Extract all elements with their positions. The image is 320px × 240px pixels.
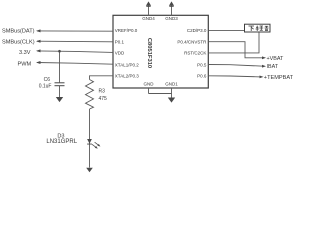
power arrow top GND4 bbox=[146, 1, 151, 5]
svg-text:XTAL2/P0.3: XTAL2/P0.3 bbox=[115, 74, 139, 79]
wire bbox=[171, 5, 173, 16]
wire bbox=[37, 63, 113, 65]
svg-text:RST/C2CK: RST/C2CK bbox=[184, 51, 206, 56]
arrowhead +VBAT bbox=[262, 56, 266, 59]
svg-text:XTAL1/P0.2: XTAL1/P0.2 bbox=[115, 62, 139, 67]
wire bbox=[37, 30, 113, 32]
microcontroller U1 C8051F310 bbox=[113, 15, 208, 88]
svg-text:GND3: GND3 bbox=[165, 16, 178, 21]
wire bbox=[208, 29, 244, 31]
svg-text:P0.1: P0.1 bbox=[115, 40, 125, 45]
power arrow top GND3 bbox=[169, 1, 174, 5]
arrowhead PWM bbox=[36, 61, 41, 64]
wire bbox=[89, 109, 91, 168]
wire bbox=[208, 76, 261, 77]
programmer box bbox=[245, 24, 271, 32]
svg-text:VDD: VDD bbox=[115, 51, 125, 56]
svg-text:GND1: GND1 bbox=[165, 82, 178, 87]
svg-text:GND: GND bbox=[144, 82, 155, 87]
svg-text:P0.4/CNVSTR: P0.4/CNVSTR bbox=[177, 40, 207, 45]
wire bbox=[148, 5, 150, 16]
wire bbox=[148, 88, 150, 94]
svg-text:+TEMPBAT: +TEMPBAT bbox=[264, 75, 294, 81]
svg-text:C2D/P3.0: C2D/P3.0 bbox=[187, 28, 207, 33]
arrowhead IBAT bbox=[262, 65, 266, 68]
ground (chip) bbox=[168, 98, 175, 103]
svg-text:C8051F310: C8051F310 bbox=[146, 38, 152, 68]
ground (D3) bbox=[86, 168, 93, 172]
arrowhead +TEMPBAT bbox=[260, 76, 264, 79]
svg-text:GND4: GND4 bbox=[142, 16, 155, 21]
wire bbox=[37, 51, 113, 53]
label 下载器 (drawn strokes) bbox=[249, 26, 269, 31]
svg-text:C6: C6 bbox=[44, 77, 51, 83]
arrowhead 3.3V bbox=[36, 49, 41, 52]
ground (C6) bbox=[56, 97, 63, 102]
wire bbox=[90, 76, 114, 80]
svg-text:SMBus(DAT): SMBus(DAT) bbox=[2, 28, 35, 34]
capacitor C6 bbox=[55, 83, 65, 86]
svg-text:P0.6: P0.6 bbox=[197, 74, 207, 79]
arrowhead SMBus(CLK) bbox=[36, 40, 41, 43]
wire bbox=[59, 86, 61, 97]
wire bbox=[208, 42, 263, 58]
svg-text:LN31GPRL: LN31GPRL bbox=[46, 139, 77, 145]
arrowhead SMBus(DAT) bbox=[36, 29, 41, 32]
svg-text:R3: R3 bbox=[99, 89, 106, 95]
diode D3 bbox=[87, 139, 92, 144]
svg-text:VREF/P0.0: VREF/P0.0 bbox=[115, 28, 138, 33]
wire bbox=[37, 40, 113, 43]
svg-text:P0.5: P0.5 bbox=[197, 62, 207, 67]
resistor R3 bbox=[86, 80, 94, 110]
svg-text:IBAT: IBAT bbox=[267, 64, 279, 70]
svg-text:SMBus(CLK): SMBus(CLK) bbox=[2, 39, 35, 45]
svg-text:+VBAT: +VBAT bbox=[267, 56, 285, 62]
svg-text:3.3V: 3.3V bbox=[19, 50, 31, 56]
svg-text:PWM: PWM bbox=[18, 61, 32, 67]
svg-text:475: 475 bbox=[99, 96, 108, 102]
wire bbox=[208, 65, 263, 67]
wire bbox=[149, 93, 172, 95]
svg-text:0.1uF: 0.1uF bbox=[39, 84, 52, 90]
wire bbox=[208, 32, 259, 53]
junction node bbox=[58, 50, 61, 53]
wire bbox=[171, 88, 173, 98]
LED arrows D3 bbox=[92, 142, 100, 148]
wire bbox=[59, 51, 61, 82]
